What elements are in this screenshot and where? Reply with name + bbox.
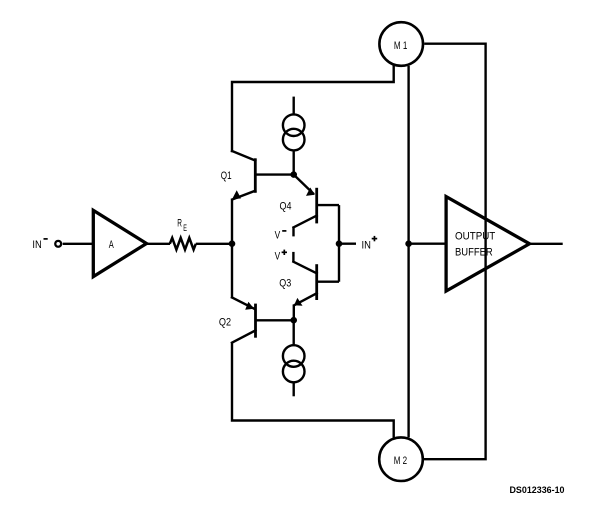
current source I1 (top) bbox=[283, 114, 305, 174]
label IN- bbox=[32, 239, 47, 251]
transistor Q4 bbox=[294, 175, 340, 237]
transistor Q3 bbox=[293, 252, 339, 320]
op-amp A bbox=[93, 210, 146, 276]
wire output bbox=[530, 243, 563, 245]
label V- bbox=[275, 229, 287, 241]
node: summing node (RE / Q1 emitter / Q2 emitter) bbox=[229, 240, 236, 247]
svg-text:OUTPUT: OUTPUT bbox=[455, 230, 495, 242]
node IN+ bbox=[336, 240, 343, 247]
wire M1 right to right-side vertical bbox=[424, 44, 486, 460]
transistor Q1 bbox=[232, 151, 294, 199]
svg-text:A: A bbox=[109, 239, 114, 251]
label DS012336-10 bbox=[510, 485, 565, 495]
svg-text:Q4: Q4 bbox=[280, 200, 292, 212]
svg-text:DS012336-10: DS012336-10 bbox=[510, 485, 565, 495]
label Q4 bbox=[280, 200, 292, 212]
svg-text:M 1: M 1 bbox=[394, 40, 407, 52]
wire Q4/Q3 collector-join vertical (IN+ node) bbox=[338, 205, 340, 282]
svg-text:V: V bbox=[275, 229, 281, 241]
node: Q1 base / I1 / Q4 emitter junction bbox=[290, 171, 297, 178]
current source I2 (bottom) bbox=[283, 320, 305, 382]
node: output buffer input bbox=[405, 240, 412, 247]
current source I1 (top) supply stub bbox=[293, 97, 295, 115]
svg-text:Q1: Q1 bbox=[221, 170, 232, 182]
svg-text:R: R bbox=[177, 218, 182, 230]
label Q3 bbox=[279, 277, 291, 289]
svg-text:E: E bbox=[183, 223, 187, 233]
wire summing node vertical (Q1 emitter to Q2 emitter) bbox=[231, 199, 233, 299]
label V+ bbox=[275, 250, 287, 263]
svg-text:M 2: M 2 bbox=[394, 455, 407, 467]
svg-text:Q2: Q2 bbox=[219, 316, 231, 328]
wire left vertical: top rail, Q1 collector riser, M1 stub bbox=[232, 65, 394, 152]
output buffer U1 bbox=[446, 197, 529, 291]
label Q1 bbox=[221, 170, 232, 182]
current source I2 (bottom) supply stub bbox=[293, 382, 295, 396]
wire node to output buffer bbox=[409, 242, 447, 244]
label RE bbox=[177, 218, 187, 233]
resistor RE bbox=[170, 238, 196, 250]
mirror M1 bbox=[379, 22, 423, 66]
input terminal IN- bbox=[55, 241, 61, 247]
wire resistor RE to summing node bbox=[196, 243, 232, 245]
wire amp A to resistor RE bbox=[146, 243, 171, 245]
label Q2 bbox=[219, 316, 231, 328]
wire IN- to amp A bbox=[63, 243, 94, 245]
svg-text:IN: IN bbox=[362, 240, 371, 252]
transistor Q2 bbox=[232, 298, 294, 343]
svg-text:BUFFER: BUFFER bbox=[455, 246, 493, 258]
svg-text:Q3: Q3 bbox=[279, 277, 291, 289]
mirror M2 bbox=[379, 437, 423, 481]
wire M1 bottom to output node vertical bbox=[407, 66, 409, 438]
label IN+ bbox=[362, 236, 378, 252]
svg-text:IN: IN bbox=[32, 239, 41, 251]
wire left vertical: Q2 collector to bottom rail, M2 stub bbox=[232, 342, 394, 438]
wire IN+ stub bbox=[339, 242, 356, 244]
svg-text:V: V bbox=[275, 250, 281, 262]
node: Q2 base / I2 / Q3 emitter junction bbox=[290, 317, 297, 324]
